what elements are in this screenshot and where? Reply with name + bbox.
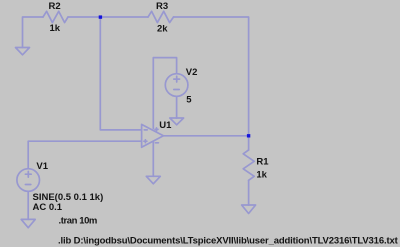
- svg-text:R2: R2: [49, 1, 61, 12]
- wire R3 to right rail, down to R1: [174, 17, 249, 150]
- svg-text:V1: V1: [36, 161, 48, 172]
- wire V1 top to op-amp non-inverting input: [28, 141, 141, 169]
- svg-text:V2: V2: [186, 67, 198, 78]
- wire V1 bottom to ground: [27, 191, 29, 219]
- wire R1 to ground: [248, 180, 250, 205]
- op-amp non-inverting input marker: [144, 140, 147, 143]
- ground (under R1): [242, 205, 256, 214]
- wire R2 to R3: [68, 16, 148, 18]
- op-amp U1 triangle: [142, 124, 164, 147]
- op-amp inverting input marker: [144, 129, 147, 131]
- V2 minus marker: [174, 89, 179, 91]
- svg-text:.lib D:\ingodbsu\Documents\LTs: .lib D:\ingodbsu\Documents\LTspiceXVII\l…: [58, 236, 399, 247]
- wire node to op-amp inverting input: [100, 17, 141, 130]
- svg-text:.tran 10m: .tran 10m: [59, 216, 97, 227]
- V2 plus marker: [174, 76, 180, 82]
- voltage source V1 circle: [17, 169, 40, 192]
- svg-text:R1: R1: [256, 157, 269, 168]
- node junction (top rail): [99, 15, 102, 18]
- ground (under op-amp): [146, 176, 160, 184]
- V1 plus marker: [25, 171, 31, 177]
- resistor R2: [43, 11, 68, 22]
- voltage source V2 circle: [165, 74, 188, 97]
- wire op-amp output to right rail: [163, 135, 248, 137]
- op-amp V+ pin plus marker: [155, 128, 158, 131]
- wire op-amp V- pin to ground: [152, 142, 154, 177]
- svg-text:2k: 2k: [157, 24, 168, 35]
- resistor R3: [148, 11, 174, 22]
- wire V2 top to op-amp V+ pin: [153, 58, 176, 129]
- wire V2 bottom to ground: [176, 96, 178, 118]
- svg-text:5: 5: [186, 95, 192, 106]
- svg-text:R3: R3: [156, 1, 168, 12]
- svg-text:1k: 1k: [50, 23, 61, 34]
- V1 minus marker: [25, 184, 30, 186]
- ground (under V1): [21, 219, 35, 227]
- ground (under V2): [170, 118, 184, 125]
- wire top-left corner to R2: [23, 17, 44, 48]
- svg-text:U1: U1: [159, 120, 172, 131]
- svg-text:1k: 1k: [256, 170, 267, 181]
- resistor R1: [243, 150, 254, 180]
- svg-text:AC 0.1: AC 0.1: [33, 202, 63, 213]
- node junction (output / right rail): [247, 134, 250, 137]
- op-amp V- pin minus marker: [155, 142, 158, 144]
- ground (top-left): [16, 48, 30, 55]
